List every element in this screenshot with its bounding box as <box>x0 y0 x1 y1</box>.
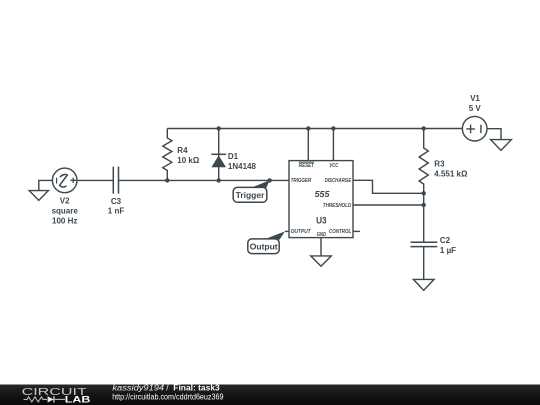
svg-text:V2: V2 <box>60 197 70 206</box>
wire GND pin down <box>320 238 322 256</box>
wire V1 to ground <box>487 129 501 140</box>
svg-text:555: 555 <box>315 189 330 199</box>
svg-text:R4: R4 <box>177 146 188 155</box>
diode D1 <box>211 129 226 181</box>
svg-text:1 nF: 1 nF <box>108 207 125 216</box>
svg-text:10 kΩ: 10 kΩ <box>177 156 200 165</box>
svg-text:1N4148: 1N4148 <box>228 162 257 171</box>
CircuitLab logo <box>22 386 91 405</box>
svg-text:THRESHOLD: THRESHOLD <box>323 203 352 209</box>
svg-text:4.551 kΩ: 4.551 kΩ <box>434 169 468 178</box>
wire C2 bottom to ground <box>423 247 425 280</box>
node D1 top <box>217 126 221 130</box>
svg-text:100 Hz: 100 Hz <box>52 217 77 226</box>
svg-text:5 V: 5 V <box>469 104 482 113</box>
wire RESET pin to rail <box>307 129 309 161</box>
svg-text:TRIGGER: TRIGGER <box>291 178 312 184</box>
ground right of V1 <box>491 140 512 151</box>
svg-text:GND: GND <box>317 232 327 238</box>
svg-text:LAB: LAB <box>65 395 91 405</box>
capacitor C2 <box>411 242 438 246</box>
node at D1 bottom <box>217 178 221 182</box>
svg-text:Output: Output <box>250 242 278 252</box>
svg-text:C3: C3 <box>111 197 122 206</box>
svg-text:RESET: RESET <box>299 163 315 169</box>
svg-text:R3: R3 <box>434 160 445 169</box>
svg-text:VCC: VCC <box>329 163 338 169</box>
wire CONTROL stub <box>353 230 360 232</box>
ground under 555 <box>311 256 332 266</box>
wire DISCHARGE pin to R3 <box>353 180 424 193</box>
node at Trigger flag <box>268 178 272 182</box>
wire VCC pin to rail <box>332 129 334 161</box>
svg-text:CONTROL: CONTROL <box>329 229 352 235</box>
label V2 <box>52 197 125 226</box>
svg-text:square: square <box>52 207 79 216</box>
node at R4 bottom <box>165 178 169 182</box>
voltage source V2 <box>52 168 77 193</box>
ground GND1 (left of V2) <box>29 180 52 200</box>
wire THRESHOLD pin to R3 <box>353 204 424 206</box>
node RESET <box>306 126 310 130</box>
node threshold/R3 <box>422 203 426 207</box>
svg-text:C2: C2 <box>440 236 451 245</box>
resistor R3 <box>419 129 428 243</box>
svg-text:1 µF: 1 µF <box>440 246 456 255</box>
svg-text:Final: task3: Final: task3 <box>173 384 220 393</box>
footer credit text <box>112 384 220 393</box>
node R3 top <box>422 126 426 130</box>
svg-text:http://circuitlab.com/cddrtd6e: http://circuitlab.com/cddrtd6euz369 <box>112 392 224 401</box>
svg-text:OUTPUT: OUTPUT <box>291 229 312 235</box>
resistor R4 <box>163 129 172 181</box>
svg-text:U3: U3 <box>316 215 327 225</box>
ground under C2 <box>413 279 434 290</box>
Output flag <box>248 231 285 253</box>
top rail wire <box>167 128 462 130</box>
node discharge/R3 <box>422 191 426 195</box>
wire C3 to 555 TRIGGER (main signal wire) <box>119 179 290 181</box>
svg-text:DISCHARGE: DISCHARGE <box>325 178 352 184</box>
op-amp U3 (555 timer) box <box>289 161 353 238</box>
voltage source V1 <box>462 116 487 141</box>
svg-text:kassidy9194: kassidy9194 <box>112 384 164 393</box>
svg-text:D1: D1 <box>228 152 239 161</box>
node VCC <box>331 126 335 130</box>
555 pin labels <box>291 162 352 238</box>
Trigger flag <box>233 180 270 202</box>
wire OUTPUT stub <box>285 230 289 232</box>
footer bar <box>0 385 540 405</box>
wire V2 to C3 <box>77 179 113 181</box>
svg-text:V1: V1 <box>470 94 480 103</box>
capacitor C3 <box>113 167 118 194</box>
svg-text:Trigger: Trigger <box>236 190 266 200</box>
